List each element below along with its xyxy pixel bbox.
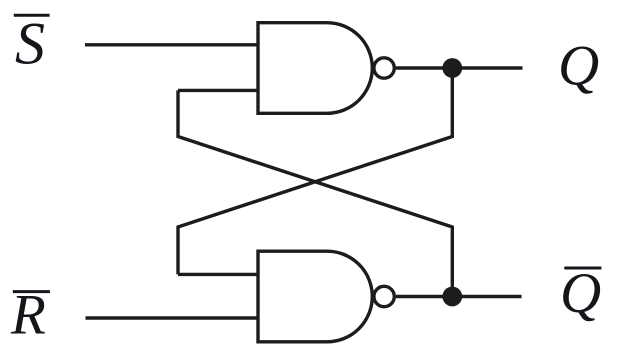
svg-text:Q: Q [558,34,599,97]
svg-text:Q: Q [560,262,601,325]
svg-text:S: S [15,11,45,77]
svg-text:R: R [10,284,46,347]
